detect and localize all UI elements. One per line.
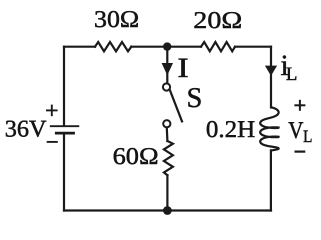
wire middle branch upper (junction to switch) [166,47,168,83]
wire right upper (top wire to inductor) [270,47,272,108]
wire top (left segment) [64,46,95,48]
svg-text:L: L [303,126,312,146]
wire bottom [64,209,271,211]
resistor R1 30ohm [95,42,131,51]
svg-text:V: V [288,118,304,144]
wire left lower (source to bottom wire) [63,134,65,210]
battery plus sign [46,105,58,117]
svg-text:20Ω: 20Ω [193,8,242,34]
node junction bottom (dot) [163,206,172,215]
label VL voltage [288,118,312,146]
inductor minus sign [295,151,306,153]
current arrow iL (arrowhead) [265,66,277,76]
switch S top contact [163,83,170,90]
wire right lower (inductor to bottom wire) [270,150,272,210]
switch S bottom contact [163,120,170,127]
wire left upper (source to top wire) [63,47,65,125]
voltage source V1 36V battery plates [51,126,79,133]
svg-text:S: S [187,83,203,114]
svg-text:30Ω: 30Ω [94,7,139,33]
wire middle branch lower (resistor to bottom junction) [166,175,168,210]
svg-text:L: L [286,64,298,85]
svg-text:36V: 36V [5,117,47,143]
svg-text:60Ω: 60Ω [113,144,159,170]
battery minus sign [47,141,58,143]
node junction top (dot) [163,42,171,50]
inductor L1 0.2H coil [260,107,278,150]
resistor R3 60ohm [164,141,173,175]
wire top (middle segment) [131,46,201,48]
switch S blade [170,90,182,122]
svg-text:I: I [177,53,188,84]
inductor plus sign [294,100,305,111]
label iL current [281,50,298,85]
current arrow I (arrowhead) [162,63,173,75]
svg-text:0.2H: 0.2H [206,117,255,143]
wire top (right segment) [235,46,271,48]
wire middle branch (switch to resistor) [166,128,169,141]
resistor R2 20ohm [201,42,235,51]
